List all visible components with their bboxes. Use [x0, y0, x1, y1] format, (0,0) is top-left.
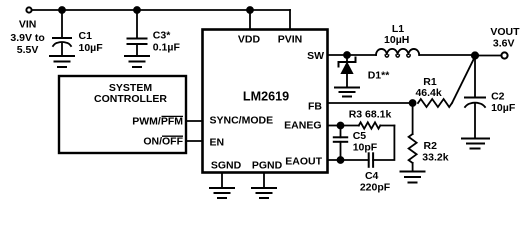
svg-text:D1**: D1** [368, 70, 391, 82]
system controller box [59, 76, 186, 153]
wire R3 to C4 [373, 126, 394, 161]
node C3 top [134, 7, 140, 13]
svg-text:33.2k: 33.2k [422, 151, 448, 163]
svg-text:CONTROLLER: CONTROLLER [94, 93, 167, 105]
label C4 [360, 170, 391, 194]
wire EANEG [328, 125, 341, 127]
svg-text:C1: C1 [79, 30, 93, 42]
wire VDD drop [249, 10, 251, 30]
wire PWM to SYNC/MODE [186, 120, 203, 122]
wire diagonal R1 to VOUT [452, 57, 475, 104]
wire VOUT to terminal [478, 55, 501, 57]
wire PGND drop [263, 173, 265, 189]
node VDD rail [247, 7, 253, 13]
ground SGND [210, 188, 234, 198]
VIN terminal [26, 7, 31, 12]
capacitor C3 [128, 10, 147, 56]
capacitor C4 [369, 153, 373, 167]
capacitor C2 [465, 56, 485, 139]
label IC pins [210, 34, 325, 172]
label system controller [94, 82, 184, 148]
label C5 [353, 130, 378, 153]
svg-text:3.6V: 3.6V [493, 37, 515, 49]
svg-text:VDD: VDD [238, 34, 261, 46]
label R2 [422, 140, 448, 163]
svg-text:R3 68.1k: R3 68.1k [349, 109, 392, 121]
svg-text:10µF: 10µF [491, 102, 516, 114]
svg-text:FB: FB [308, 101, 322, 113]
ground D1 [335, 88, 359, 97]
svg-text:C4: C4 [365, 170, 379, 182]
ground C3 [125, 56, 149, 67]
resistor R3 [341, 122, 395, 128]
label R1 [415, 76, 441, 99]
resistor R1 [418, 99, 452, 107]
resistor R2 [409, 103, 417, 172]
diode D1 schottky [339, 55, 356, 88]
wire PVIN drop [289, 10, 291, 30]
svg-text:46.4k: 46.4k [415, 87, 441, 99]
wire SGND drop [221, 173, 223, 189]
svg-text:10µH: 10µH [384, 34, 409, 46]
svg-text:EANEG: EANEG [284, 120, 321, 132]
svg-text:C5: C5 [353, 130, 367, 142]
svg-text:PVIN: PVIN [278, 34, 303, 46]
VOUT terminal [501, 52, 507, 58]
capacitor C1 [53, 10, 71, 56]
label C2 [491, 91, 516, 114]
svg-text:PGND: PGND [252, 160, 283, 172]
svg-text:SYNC/MODE: SYNC/MODE [210, 115, 274, 127]
label C1 [79, 30, 104, 54]
label C3 [153, 29, 181, 53]
svg-text:C3*: C3* [153, 29, 171, 41]
inductor L1 [376, 49, 472, 57]
wire SW [328, 54, 377, 56]
wire top rail [32, 9, 290, 11]
svg-text:C2: C2 [491, 91, 505, 103]
svg-text:EAOUT: EAOUT [285, 156, 322, 168]
svg-text:VIN: VIN [19, 18, 37, 30]
svg-text:10pF: 10pF [353, 141, 378, 153]
overline OFF [162, 135, 183, 137]
node VOUT [472, 52, 478, 58]
svg-text:PWM/PFM: PWM/PFM [132, 116, 183, 128]
wire EAOUT [328, 159, 369, 161]
svg-text:EN: EN [210, 137, 225, 149]
svg-text:10µF: 10µF [79, 42, 104, 54]
label VOUT [490, 26, 520, 50]
svg-text:220pF: 220pF [360, 182, 391, 194]
svg-text:VOUT: VOUT [490, 26, 520, 38]
svg-text:3.9V to: 3.9V to [10, 32, 44, 44]
label VIN [10, 18, 44, 56]
svg-text:5.5V: 5.5V [17, 44, 39, 56]
ground C2 [462, 139, 489, 149]
op IC LM2619 box [203, 30, 328, 173]
svg-text:ON/OFF: ON/OFF [143, 136, 183, 148]
capacitor C5 [334, 126, 347, 161]
node C1 top [59, 7, 65, 13]
overline PFM [162, 115, 184, 117]
node EAOUT [338, 157, 344, 163]
node EANEG [338, 123, 344, 129]
wire FB [328, 102, 413, 104]
node SW/D1 [344, 52, 350, 58]
ground PGND [252, 188, 276, 198]
svg-text:SW: SW [307, 50, 324, 62]
svg-text:SGND: SGND [211, 160, 242, 172]
svg-text:LM2619: LM2619 [243, 90, 289, 104]
svg-text:0.1µF: 0.1µF [153, 42, 181, 54]
wire ON/OFF to EN [186, 140, 203, 142]
ground R2 [401, 172, 425, 183]
ground C1 [50, 56, 74, 67]
node FB/R2 [410, 100, 416, 106]
label L1 [384, 23, 409, 46]
